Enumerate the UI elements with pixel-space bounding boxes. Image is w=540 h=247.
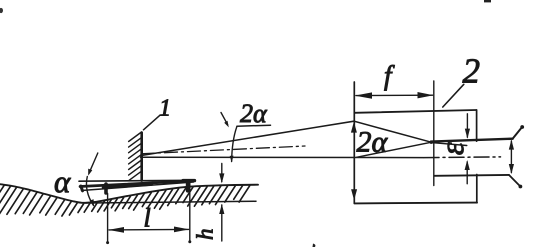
slit upper end flick [513, 127, 522, 138]
upper reflected ray (deviated by 2a) [141, 121, 432, 155]
slit lower jaw line [435, 174, 509, 177]
eps dimension lower arrow [466, 162, 468, 184]
bar left foot [104, 184, 108, 193]
svg-text:f: f [384, 61, 395, 91]
mirror 1 (plate on bar) [140, 133, 143, 181]
alpha leader arrowhead [88, 169, 92, 176]
l dimension right extension [189, 182, 191, 243]
svg-text:h: h [193, 229, 218, 241]
alpha angle arc [86, 177, 93, 206]
mirror normal dash-dot [142, 146, 306, 154]
f right arrowhead [418, 92, 434, 98]
body top edge [355, 110, 477, 113]
l dimension line [109, 228, 189, 231]
alpha angle leader [89, 153, 98, 173]
svg-text:α: α [54, 164, 71, 199]
ground reference line through hollow bottom [85, 201, 256, 203]
svg-text:ε: ε [435, 142, 471, 155]
focal plane extension line [433, 81, 435, 186]
2a angle tick near mirror [232, 126, 237, 161]
h dimension upper segment [221, 164, 223, 182]
arrowhead of small arrow [224, 121, 229, 128]
bar bottom edge [82, 182, 194, 191]
ground surface profile [0, 184, 258, 203]
bar left end [81, 186, 83, 191]
svg-text:2: 2 [463, 52, 481, 91]
speck top-right edge [484, 0, 491, 2]
bar top edge (tilted) [80, 181, 194, 187]
slit dim down arrowhead [509, 164, 514, 174]
beam edge after focus [431, 143, 467, 146]
optical axis dash-dot [424, 156, 501, 159]
eps dimension upper arrow [466, 114, 468, 137]
eps lower arrowhead [465, 160, 470, 170]
slit dim up arrowhead [509, 140, 514, 150]
flick end blob upper [520, 125, 524, 129]
bar mid smudge [103, 184, 152, 187]
body right edge upper jaw [476, 110, 478, 141]
h dimension lower segment [221, 205, 223, 241]
slit lower end flick [509, 175, 520, 186]
l right extension dot [188, 240, 191, 243]
l left extension dot [106, 241, 109, 244]
l dimension left extension [107, 194, 109, 244]
mirror hatching [129, 132, 142, 181]
body right edge lower jaw [476, 175, 478, 203]
slit height dimension double arrow [510, 141, 512, 173]
bar right foot [186, 181, 190, 191]
l left arrowhead [108, 227, 124, 233]
focal point blob [430, 141, 433, 144]
speck top-left edge [0, 8, 3, 13]
body bottom edge [354, 202, 477, 205]
leader to label 1 [144, 115, 161, 130]
eps upper arrowhead [465, 129, 470, 139]
f left arrowhead [355, 92, 372, 98]
arrowhead at tick bottom [230, 156, 234, 163]
svg-text:l: l [144, 204, 151, 233]
small arrow onto tick [221, 113, 228, 125]
autocollimator body left edge (with aperture arrows) [353, 82, 355, 203]
leader to label 2 [443, 84, 464, 107]
ground hatching [0, 186, 250, 219]
svg-text:2α: 2α [357, 126, 389, 159]
alpha arc bottom arrowhead [90, 199, 95, 206]
h lower arrowhead (up) [219, 204, 224, 214]
svg-text:2α: 2α [240, 99, 268, 128]
h upper arrowhead (down) [219, 173, 224, 183]
bar reference sight line [79, 179, 195, 182]
svg-text:1: 1 [159, 96, 171, 122]
flick end blob lower [519, 185, 523, 189]
refracted lower ray to focus [357, 142, 432, 157]
down arrowhead on left edge [351, 189, 357, 200]
incident horizontal ray [141, 156, 424, 158]
2a label shoulder line [237, 125, 271, 126]
l right arrowhead [174, 227, 189, 233]
slit upper jaw line [431, 139, 513, 142]
bar right end blob [183, 179, 195, 182]
f dimension line [356, 94, 433, 96]
up arrowhead on left edge [351, 122, 357, 133]
speck bottom comma [313, 244, 316, 247]
